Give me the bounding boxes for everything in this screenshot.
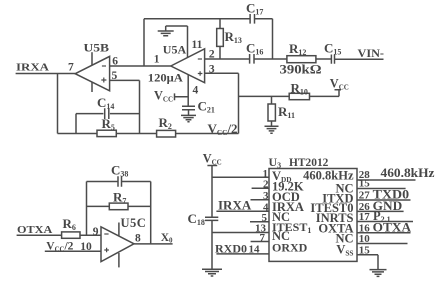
wire VDD pin1 [212, 176, 269, 178]
pin 7 stub [251, 241, 269, 243]
wire VCC/2 to pin10 [45, 250, 101, 252]
op-amp U5C [101, 227, 134, 262]
resistor R10 [289, 93, 309, 99]
U5A plus sign [198, 71, 203, 76]
wire R7 branch [87, 205, 151, 207]
svg-text:HT2012: HT2012 [289, 155, 328, 169]
svg-text:U5C: U5C [121, 216, 147, 230]
svg-text:VIN-: VIN- [358, 48, 385, 60]
resistor R7 [109, 203, 128, 210]
ground below R11 [265, 126, 279, 133]
resistor R13 stems [219, 19, 221, 59]
wire VSS to ground [377, 255, 379, 270]
pin 2 stub [252, 187, 269, 189]
ground below C18 [202, 269, 222, 276]
wire pin 11 up [187, 26, 189, 58]
svg-text:ORXD: ORXD [272, 241, 308, 255]
op-amp U5B [75, 56, 109, 90]
wire C18 to ground [211, 220, 213, 269]
capacitor C15 [331, 55, 334, 64]
pin 17 wire [357, 221, 413, 223]
wire bottom feedback rail [58, 133, 239, 135]
svg-text:VCC: VCC [203, 152, 222, 167]
svg-text:R6: R6 [63, 216, 76, 232]
svg-text:R2: R2 [159, 115, 172, 131]
pin 15 wire bottom [357, 254, 378, 256]
svg-text:C15: C15 [324, 41, 341, 57]
svg-text:390kΩ: 390kΩ [280, 62, 322, 77]
U5C plus sign [104, 248, 109, 253]
resistor R2 [157, 130, 176, 137]
wire U5C output [134, 243, 173, 245]
wire C14 branch [76, 113, 140, 115]
wire top feedback rail [144, 18, 273, 20]
wire ITEST1 pin13 [212, 232, 269, 234]
U5B minus sign [102, 65, 106, 67]
U5C minus sign [104, 233, 108, 235]
resistor R12 [287, 56, 316, 63]
wire top rail right drop to pin2 net [272, 19, 274, 59]
svg-text:7: 7 [260, 232, 266, 244]
ground below pin15 [370, 270, 387, 277]
wire feedback left vertical [86, 182, 88, 236]
wire R10 to VCC [310, 95, 340, 97]
svg-text:U3: U3 [269, 155, 282, 170]
wire C38 branch [87, 181, 151, 183]
svg-text:R11: R11 [278, 104, 295, 120]
U5C power stub bottom [118, 253, 120, 267]
pin 10 wire [357, 243, 408, 245]
svg-text:11: 11 [192, 39, 203, 51]
wire RXD0 to pin14 [216, 253, 269, 255]
svg-text:1: 1 [154, 53, 160, 65]
svg-text:460.8kHz: 460.8kHz [303, 169, 354, 183]
svg-text:VCC/2: VCC/2 [208, 121, 238, 137]
svg-text:3: 3 [263, 190, 269, 202]
svg-text:C38: C38 [111, 163, 128, 179]
capacitor C17 [250, 14, 254, 24]
wire OTXA to R6 [17, 234, 101, 236]
pin 28 wire [357, 179, 416, 181]
capacitor C38 [118, 176, 122, 186]
svg-text:OTXA: OTXA [17, 224, 53, 236]
svg-text:R12: R12 [289, 41, 306, 57]
U5B plus sign [101, 78, 106, 83]
svg-text:R5: R5 [102, 116, 115, 132]
svg-text:X0: X0 [161, 232, 173, 245]
svg-text:C17: C17 [246, 1, 263, 17]
power VCC at pin4 [175, 93, 189, 100]
svg-text:4: 4 [193, 85, 199, 97]
wire pin3 drop to rail [238, 73, 240, 133]
pin 26 wire [357, 210, 404, 212]
resistor R13 [217, 29, 224, 47]
svg-text:15: 15 [359, 244, 371, 256]
ground below C21 [181, 110, 196, 122]
svg-text:7: 7 [68, 62, 74, 74]
wire feedback drop from IRXA node [57, 74, 59, 134]
svg-text:C14: C14 [97, 95, 114, 111]
wire IRXA input to U5B pin7 [16, 73, 76, 75]
wire U5A pin4 down [187, 75, 189, 107]
svg-text:9: 9 [93, 226, 99, 238]
svg-text:VCC: VCC [330, 77, 349, 92]
power VCC right [335, 90, 342, 97]
svg-text:C21: C21 [198, 99, 215, 115]
wire C14 branch left drop [75, 114, 77, 134]
svg-text:5: 5 [262, 212, 268, 224]
svg-text:2: 2 [263, 179, 269, 191]
wire U5B pin6 to U5A output [110, 65, 171, 67]
svg-text:R7: R7 [113, 190, 126, 206]
svg-text:OTXA: OTXA [373, 220, 411, 234]
wire R12 to C15 [316, 58, 331, 60]
IC U3 HT2012 body [269, 169, 357, 262]
wire IRXA to pin4 [216, 210, 269, 212]
svg-text:17: 17 [359, 211, 371, 223]
resistor R11 [268, 104, 275, 121]
U5B power stub bottom [91, 82, 93, 92]
pin 27 wire [357, 199, 411, 201]
svg-text:8: 8 [135, 232, 141, 244]
svg-text:IRXA: IRXA [218, 198, 252, 213]
wire top rail left drop to U5A output [143, 19, 145, 66]
capacitor C16 [250, 54, 254, 64]
U5A minus sign [198, 58, 202, 60]
pin 5 stub [250, 221, 269, 223]
svg-text:R13: R13 [225, 29, 242, 45]
svg-text:R10: R10 [291, 81, 308, 97]
wire C15 to VIN- [335, 58, 384, 60]
wire U5B pin5 right [110, 79, 140, 81]
wire bias to R10 [239, 95, 290, 97]
resistor R6 [62, 232, 80, 238]
svg-text:C16: C16 [246, 41, 263, 57]
svg-text:U5B: U5B [84, 41, 110, 55]
svg-text:460.8kHz: 460.8kHz [381, 165, 435, 180]
wire C16 to R12 [254, 58, 287, 60]
svg-text:10: 10 [359, 233, 371, 245]
capacitor C21 [182, 106, 195, 109]
pin 15 wire top [357, 188, 406, 190]
capacitor C18 [205, 217, 218, 220]
ground at U5A top [158, 26, 174, 36]
U5C power stub top [118, 223, 120, 236]
wire U5A pin3 right [205, 72, 239, 74]
svg-text:IRXA: IRXA [16, 62, 49, 74]
wire VCC chip vertical [207, 166, 217, 218]
pin 16 wire [357, 232, 411, 234]
U5B power stub top [91, 52, 93, 65]
svg-text:U5A: U5A [163, 43, 187, 57]
op-amp U5A [171, 49, 205, 83]
resistor R11 stems [271, 96, 273, 126]
svg-text:10: 10 [80, 241, 92, 253]
wire pin5 drop to rail [139, 80, 141, 133]
wire ground link at top of U5A [166, 25, 188, 27]
wire feedback right vertical [150, 182, 152, 244]
svg-text:VCC: VCC [154, 89, 173, 104]
pin 3 stub [251, 199, 270, 201]
wire U5A pin2 to C16 [205, 58, 250, 60]
svg-text:27: 27 [359, 190, 371, 202]
svg-text:14: 14 [249, 244, 261, 256]
svg-text:120μA: 120μA [148, 73, 183, 85]
svg-text:15: 15 [359, 178, 371, 190]
svg-text:C18: C18 [188, 211, 205, 227]
resistor R5 [97, 130, 116, 136]
capacitor C14 [105, 108, 109, 119]
